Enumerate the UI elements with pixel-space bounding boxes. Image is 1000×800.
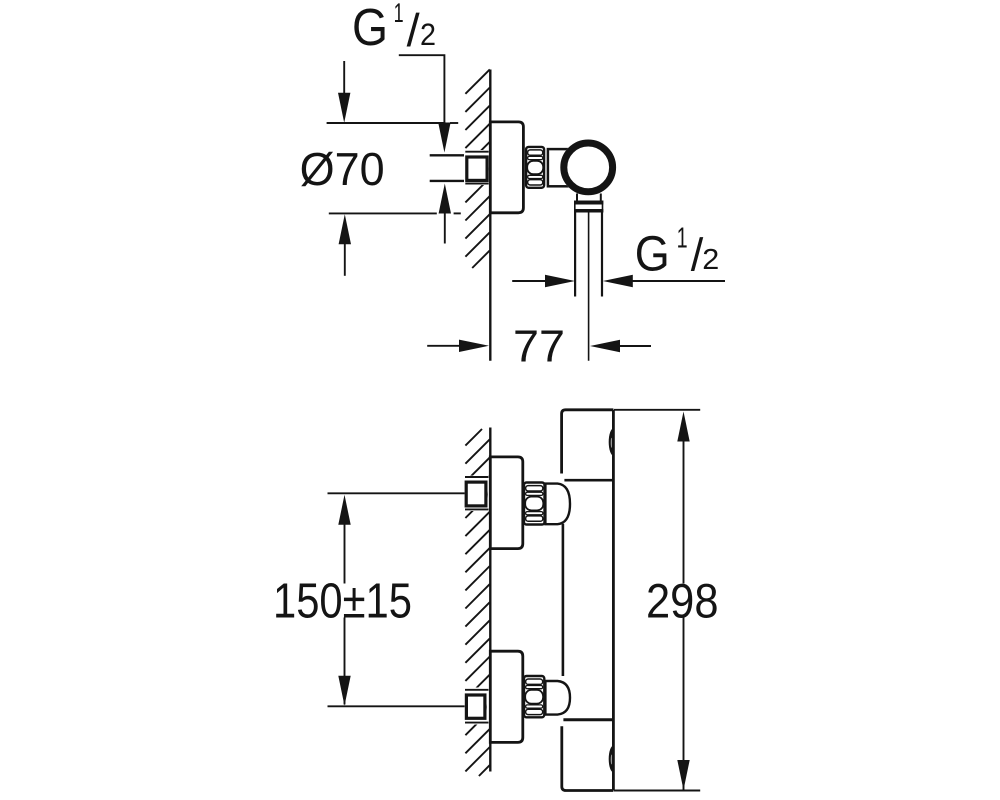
outlet collar bands: [574, 201, 603, 213]
wall line (upper side view): [489, 70, 491, 361]
svg-text:2: 2: [702, 244, 719, 276]
298 extension line bottom: [614, 790, 700, 792]
svg-text:1: 1: [677, 223, 688, 255]
body right edge: [612, 410, 615, 791]
hex union nut (upper view): [526, 147, 544, 188]
supply pipe stub behind wall (upper view): [430, 157, 466, 180]
150 extension line bottom: [328, 705, 465, 707]
svg-text:77: 77: [513, 320, 565, 371]
bottom wall flange (lower view): [490, 651, 523, 742]
298 dimension line and arrows: [677, 412, 689, 442]
body lower separation line: [563, 718, 613, 721]
square union nut behind wall (upper view): [464, 150, 490, 185]
wall line (lower view): [489, 428, 491, 772]
body middle left edge: [562, 524, 565, 676]
shower hose pipe below collar: [575, 213, 602, 361]
top hex union nut (lower view): [524, 483, 545, 525]
svg-text:1: 1: [394, 0, 404, 28]
dia 70 extension line top: [327, 122, 446, 124]
dimension 77: [427, 345, 461, 347]
valve body circle (upper view): [560, 140, 616, 196]
top wall flange (lower view): [490, 457, 523, 549]
body cap bottom edge: [564, 479, 613, 482]
svg-text:298: 298: [646, 575, 719, 629]
label G 1/2 (top left): [352, 0, 436, 57]
G 1/2 hose dimension arrows: [512, 280, 548, 282]
bottom square union nut (lower view): [464, 688, 490, 725]
outlet neck below circle: [576, 194, 578, 201]
thermostat body bottom cap: [562, 726, 614, 790]
wall hatching (upper side view): [465, 69, 489, 268]
svg-text:G: G: [635, 225, 670, 281]
298 extension line top: [614, 409, 700, 411]
svg-text:2: 2: [420, 17, 436, 52]
wall flange escutcheon (upper view): [490, 122, 523, 213]
knob bump top on body right edge: [609, 428, 614, 455]
dia 70 extension line bottom: [329, 212, 437, 214]
top square union nut (lower view): [464, 476, 490, 511]
top inlet dome (lower view): [545, 484, 570, 525]
bottom hex union nut (lower view): [524, 676, 544, 717]
bottom inlet dome (lower view): [545, 681, 570, 715]
knob bump bottom on body right edge: [609, 746, 614, 773]
svg-text:Ø70: Ø70: [300, 143, 385, 195]
150 extension line top: [328, 492, 465, 494]
150 dimension line and arrows: [338, 495, 350, 525]
svg-text:/: /: [407, 4, 420, 56]
dia70 bottom arrow: [339, 214, 351, 244]
svg-text:G: G: [352, 0, 388, 57]
label G 1/2 (right): [635, 223, 720, 282]
connector body (upper view): [548, 149, 573, 186]
svg-text:150±15: 150±15: [273, 574, 412, 629]
arrow down to pipe top edge: [438, 123, 450, 153]
arrow up to pipe bottom edge: [439, 184, 451, 214]
thermostat body top cap: [562, 410, 614, 474]
wall hatching (lower front view): [465, 429, 489, 776]
leader line G 1/2 top: [399, 55, 445, 124]
dia70 top arrow: [343, 61, 345, 95]
